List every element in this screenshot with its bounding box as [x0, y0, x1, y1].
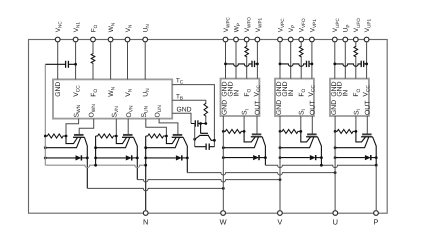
wire R-TB to node A [205, 117, 207, 124]
capacitor C-W plates [251, 61, 253, 67]
wire IC V SI feed [300, 116, 302, 131]
dot N line corner [144, 164, 147, 167]
wire sense emitter U [356, 131, 366, 142]
resistor R-FO (W phase) [245, 46, 249, 57]
freewheel diode DUH [365, 155, 371, 160]
terminal U [333, 211, 338, 216]
wire IC U1 OWN gate feed [79, 119, 94, 135]
wire resistor to IC FO [246, 57, 248, 78]
wire IC W GND to phase node [222, 116, 224, 131]
dot diode-collector W [264, 156, 267, 159]
dot diode-collector U [375, 156, 378, 159]
pin WP [234, 37, 239, 42]
capacitor C-V decoupling wire [280, 64, 307, 66]
junction dot VVPC [279, 63, 282, 66]
freewheel diode DVH anode wire [280, 157, 310, 159]
freewheel diode DWL [76, 155, 82, 160]
W-phase P-side driver IC [221, 79, 260, 116]
wire IC U SI feed [355, 116, 357, 131]
wire diode cathode to collector W [259, 157, 265, 159]
IGBT QUL body bar [172, 136, 184, 138]
wire diode cathode to collector U [371, 157, 376, 159]
wire diode cathode to collector VN [132, 157, 138, 159]
pin VWFO [244, 37, 249, 42]
IGBT QUH gate bar [362, 133, 372, 135]
transistor Q7 left leg [195, 135, 200, 139]
wire resistor to IC FO [355, 57, 357, 78]
resistor R-sense V low side [96, 134, 117, 138]
svg-text:GND: GND [222, 100, 229, 115]
W phase vertical [222, 131, 224, 210]
freewheel diode DVL [126, 155, 132, 160]
wire pin VVP1 to IC VCC [311, 42, 313, 78]
wire pin UN to IC U1 [144, 42, 146, 79]
dot diode-collector VN [136, 157, 139, 160]
resistor R-FO (V phase) [299, 46, 303, 57]
transistor Q7 body bar [199, 134, 208, 136]
N terminal vertical [145, 136, 147, 210]
terminal W [221, 211, 226, 216]
IGBT QVH collector [318, 137, 322, 165]
dot diode anode WN [44, 157, 47, 160]
wire sense emitter VN [116, 136, 126, 144]
dot emitter-GND W [222, 146, 225, 149]
wire IC U GND to phase node [334, 116, 336, 131]
wire pin VUP1 to IC VCC [366, 42, 368, 78]
wire pin VN1 to IC U1 [75, 42, 77, 79]
wire pin FO to IC U1 (upper) [92, 42, 94, 53]
IGBT QUL collector [183, 137, 187, 172]
dot resistor-GND V [279, 130, 282, 133]
riser V-cell to N line [95, 136, 97, 165]
dot S-junction UN [165, 135, 168, 138]
svg-text:GND: GND [55, 82, 62, 97]
wire power emitter U [335, 137, 369, 148]
svg-text:IN: IN [343, 90, 350, 97]
freewheel diode DUL [176, 155, 182, 160]
wire sense emitter UN [166, 136, 176, 144]
pin VUPC [332, 37, 337, 42]
dot V bus to V terminal [279, 178, 282, 181]
transistor Q7 gate bar [200, 132, 208, 134]
svg-text:OUT: OUT [365, 101, 372, 115]
terminal P [374, 211, 379, 216]
wire pin WP to IC IN [235, 42, 237, 78]
pin VVPC [278, 37, 283, 42]
wire IC U1 SWN feed [66, 119, 79, 136]
pin VVP1 [310, 37, 315, 42]
svg-text:OUT: OUT [254, 101, 261, 115]
freewheel diode DUH anode wire [335, 157, 365, 159]
wire sense emitter V [301, 131, 311, 142]
wire IC W OUT to gate [256, 116, 258, 134]
wire pin VVFO upper [300, 42, 302, 46]
wire resistor to IC FO [300, 57, 302, 78]
wire VNC/GND line (left vertical) [44, 64, 46, 165]
pin VWP1 [255, 37, 260, 42]
junction dot VWP1 [256, 63, 259, 66]
U phase vertical [334, 131, 336, 210]
svg-text:IN: IN [233, 90, 240, 97]
wire pin VVPC to IC GND [279, 42, 281, 78]
capacitor C-U decoupling wire [335, 64, 361, 66]
wire pin VWP1 to IC VCC [256, 42, 258, 78]
dot Q7 emitter [193, 138, 196, 141]
V-phase P-side driver IC [275, 79, 314, 116]
dot S-junction W [243, 130, 246, 133]
freewheel diode DVH [310, 155, 316, 160]
junction dot at VN1 [74, 63, 77, 66]
svg-text:IN: IN [288, 90, 295, 97]
junction dot (thermal gate) [199, 122, 202, 125]
dot diode-collector V [320, 156, 323, 159]
resistor R-FO (U phase) [354, 46, 358, 57]
wire IC V GND to phase node [279, 116, 281, 131]
wire thermal left drop [194, 124, 196, 147]
dot S-junction VN [115, 135, 118, 138]
junction dot VVP1 [311, 63, 314, 66]
wire IC V OUT to gate [311, 116, 313, 134]
N-side driver IC U1 [53, 79, 172, 118]
P bus [265, 165, 376, 167]
wire diode cathode to collector V [316, 157, 322, 159]
capacitor C-TC wire [195, 146, 215, 148]
dot U bus to U terminal [334, 171, 337, 174]
W output bus [87, 188, 223, 190]
svg-text:GND: GND [176, 107, 191, 114]
IGBT QWH body bar [251, 136, 262, 138]
resistor R-sense W high side [223, 129, 244, 133]
resistor R-TB [204, 103, 208, 117]
IGBT QWH collector [262, 137, 265, 165]
dot W bus to W terminal [222, 187, 225, 190]
IGBT QWH gate bar [252, 133, 261, 135]
freewheel diode DUL anode wire [146, 157, 176, 159]
freewheel diode DWH anode wire [223, 157, 253, 159]
pin UP [343, 37, 348, 42]
IGBT QUH collector [373, 137, 377, 165]
wire diode cathode to collector UN [182, 157, 188, 159]
dot emitter-GND U [334, 146, 337, 149]
resistor R-sense U low side [146, 134, 167, 138]
IGBT QWL body bar [73, 136, 85, 138]
dot S-junction U [355, 130, 358, 133]
capacitor C-U plates [360, 61, 362, 67]
wire pin VWPC to IC GND [225, 42, 227, 78]
dot emitter WN [44, 146, 47, 149]
capacitor C1 plates [65, 61, 67, 68]
IGBT QVL body bar [122, 136, 134, 138]
N common line to N terminal [45, 165, 145, 167]
dot diode-GND U [334, 156, 337, 159]
svg-text:GND: GND [276, 100, 283, 115]
dot diode-GND W [222, 156, 225, 159]
P terminal vertical [375, 165, 377, 210]
resistor R-sense V high side [280, 129, 301, 133]
wire sense emitter WN [66, 136, 78, 144]
wire TB stub [172, 100, 206, 103]
freewheel diode DVL anode wire [96, 157, 126, 159]
pin VN1 [73, 37, 78, 42]
thermal sense transistor Q7 gate feed [200, 124, 202, 134]
svg-text:GND: GND [331, 100, 338, 115]
pin VUFO [353, 37, 358, 42]
IGBT QVH body bar [306, 136, 318, 138]
dot diode-GND V [279, 156, 282, 159]
dot emitter-GND V [279, 146, 282, 149]
wire IC U1 SVN feed [115, 119, 117, 136]
wire pin WN to IC U1 [110, 42, 112, 79]
U-phase P-side driver IC [330, 79, 369, 116]
dot P bus P vertical [375, 164, 378, 167]
IGBT QWL gate bar [74, 134, 84, 136]
IGBT QVL collector [134, 137, 138, 179]
junction dot VUP1 [365, 63, 368, 66]
IGBT QVH gate bar [307, 133, 317, 135]
wire TC stub [172, 85, 214, 147]
pin UN [143, 37, 148, 42]
wire power emitter WN [45, 137, 80, 147]
wire pin VWFO upper [246, 42, 248, 46]
wire power emitter W [223, 137, 258, 148]
dot diode anode VN [94, 157, 97, 160]
wire power emitter UN [146, 137, 180, 147]
capacitor C-V plates [306, 61, 308, 67]
pin VNC [55, 37, 60, 42]
wire GND stub [172, 113, 191, 123]
wire sense emitter W [244, 131, 255, 142]
dot diode-collector UN [186, 157, 189, 160]
wire pin VN to IC U1 [127, 42, 129, 79]
module package outline [29, 40, 388, 214]
dot diode-collector WN [86, 157, 89, 160]
pin VWPC [223, 37, 228, 42]
pin VVFO [299, 37, 304, 42]
dot P bus V collector [320, 164, 323, 167]
pin VN [125, 37, 130, 42]
IGBT QUL gate bar [173, 134, 183, 136]
wire pin VUFO upper [355, 42, 357, 46]
wire diode cathode to collector WN [81, 157, 87, 159]
wire pin VNC to IC U1 [57, 42, 59, 79]
V output bus [137, 180, 280, 182]
wire resistor to IC U1 FO pin [92, 64, 94, 80]
wire power emitter VN [96, 137, 130, 147]
dot emitter UN [144, 146, 147, 149]
wire IC W SI feed [243, 116, 245, 131]
dot S-junction WN [65, 135, 68, 138]
node A dot [204, 122, 207, 125]
svg-text:V: V [277, 218, 282, 227]
wire pin UP to IC IN [344, 42, 346, 78]
dot emitter VN [94, 146, 97, 149]
freewheel diode DWL anode wire [45, 157, 75, 159]
svg-text:U: U [333, 218, 338, 227]
dot S-junction V [299, 130, 302, 133]
capacitor C-W decoupling wire [226, 64, 253, 66]
IGBT QVL gate bar [123, 134, 133, 136]
capacitor C-TB plates [194, 120, 196, 126]
IGBT QWL collector [85, 137, 88, 188]
freewheel diode DWH [253, 155, 259, 160]
svg-text:W: W [220, 218, 227, 227]
wire pin VP to IC IN [290, 42, 292, 78]
dot resistor-GND W [222, 130, 225, 133]
capacitor C-TC plates [205, 144, 207, 150]
terminal N [143, 211, 148, 216]
capacitor C-TB wire [191, 123, 206, 125]
terminal V [278, 211, 283, 216]
dot riser V on N line [94, 164, 97, 167]
IGBT QUH body bar [361, 136, 373, 138]
pin FO [91, 37, 96, 42]
dot on TC line [213, 139, 216, 142]
resistor R-sense U high side [335, 129, 356, 133]
wire IC U1 SUN feed [146, 119, 167, 136]
svg-text:OUT: OUT [310, 101, 317, 115]
junction dot VWPC [224, 63, 227, 66]
wire IC U1 OVN gate feed [127, 119, 129, 135]
junction dot VUPC [333, 63, 336, 66]
resistor R-FO (N-side fault output) [91, 53, 95, 64]
pin WN [108, 37, 113, 42]
transistor Q7 right leg [208, 135, 214, 140]
dot diode anode UN [144, 157, 147, 160]
svg-text:N: N [143, 218, 148, 227]
wire IC U OUT to gate [366, 116, 368, 134]
resistor R-sense W low side [45, 134, 66, 138]
wire pin VUPC to IC GND [334, 42, 336, 78]
wire IC U1 OUN gate feed [159, 119, 178, 135]
dot resistor-GND U [334, 130, 337, 133]
pin VUP1 [364, 37, 369, 42]
dot GND-resistor W [44, 135, 47, 138]
wire power emitter V [280, 137, 314, 148]
V phase vertical [279, 131, 281, 210]
svg-text:P: P [374, 218, 379, 227]
U output bus [187, 173, 335, 175]
pin VP [288, 37, 293, 42]
capacitor C1 (VNC-VN1 decoupling) wire [45, 63, 75, 65]
